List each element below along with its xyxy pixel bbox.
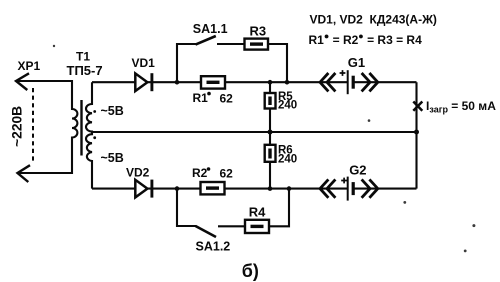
svg-text:VD2: VD2 <box>126 166 150 180</box>
svg-text:G2: G2 <box>349 163 366 178</box>
svg-text:R3: R3 <box>250 23 267 38</box>
svg-text:~5В: ~5В <box>101 151 124 165</box>
svg-text:G1: G1 <box>348 55 365 70</box>
svg-text:SA1.1: SA1.1 <box>193 22 228 36</box>
svg-text:62: 62 <box>220 167 234 181</box>
svg-text:T1: T1 <box>76 50 90 64</box>
svg-text:VD1: VD1 <box>132 56 156 70</box>
svg-text:VD1, VD2 КД243(А-Ж): VD1, VD2 КД243(А-Ж) <box>310 12 437 26</box>
svg-text:R4: R4 <box>249 204 266 219</box>
svg-text:240: 240 <box>278 154 297 166</box>
svg-text:62: 62 <box>220 92 234 106</box>
svg-text:б): б) <box>242 261 259 281</box>
svg-text:240: 240 <box>278 100 297 112</box>
svg-text:R1: R1 <box>193 91 209 105</box>
svg-text:ТП5-7: ТП5-7 <box>67 63 103 78</box>
svg-text:SA1.2: SA1.2 <box>196 240 231 254</box>
svg-text:~5В: ~5В <box>101 104 124 118</box>
svg-text:R2: R2 <box>192 166 208 180</box>
svg-text:XP1: XP1 <box>18 59 41 73</box>
svg-text:~220В: ~220В <box>10 106 25 147</box>
